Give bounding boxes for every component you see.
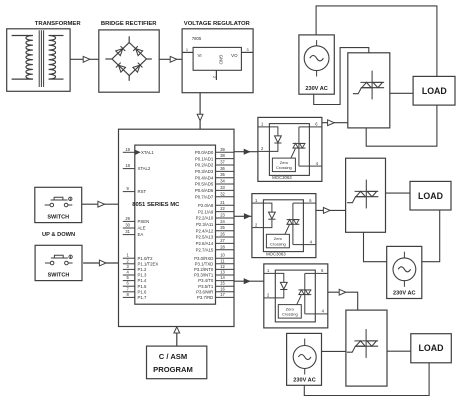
regulator pin 1 stub bbox=[182, 51, 193, 53]
opto-coupler U3 MOC3063 pin 6 bbox=[309, 126, 322, 128]
svg-text:P3.5/T1: P3.5/T1 bbox=[198, 284, 214, 289]
opto-coupler U5 MOC3063 pin 6 bbox=[315, 272, 328, 274]
svg-text:P2.6/A14: P2.6/A14 bbox=[196, 241, 214, 246]
svg-text:P0.4/AD4: P0.4/AD4 bbox=[195, 175, 214, 180]
XTAL1 input arrow bbox=[135, 150, 140, 154]
regulator pin 2 stub bbox=[215, 70, 217, 80]
svg-text:LOAD: LOAD bbox=[422, 86, 447, 96]
MC pin 28 P2.7/A15 bbox=[216, 249, 234, 251]
AC source V3 symbol bbox=[293, 346, 316, 369]
svg-text:29: 29 bbox=[125, 216, 130, 221]
opto-coupler U4 MOC3063 pin 6 bbox=[303, 202, 316, 204]
AC source V2 symbol bbox=[393, 258, 416, 281]
opto-coupler U5 MOC3063 outer box bbox=[264, 264, 328, 328]
MC pin 12 P3.2/INT0 bbox=[216, 268, 234, 270]
MC pin 22 P2.1/A9 bbox=[216, 211, 234, 213]
MC pin 26 P2.5/A13 bbox=[216, 236, 234, 238]
MC pin 39 P0.0/AD0 bbox=[216, 151, 234, 153]
svg-text:24: 24 bbox=[220, 219, 225, 224]
opto-coupler U5 MOC3063 output triac bbox=[304, 273, 306, 314]
bridge terminal stubs bbox=[128, 36, 130, 42]
opto-coupler U3 MOC3063 output triac bbox=[298, 127, 300, 166]
AC source V1 symbol bbox=[304, 46, 329, 71]
svg-text:Crossing: Crossing bbox=[270, 241, 286, 246]
MC pin 32 P0.7/AD7 bbox=[216, 196, 234, 198]
bridge diode D2 (top-right) bbox=[133, 46, 143, 56]
wire MC P2.2 to opto U4 bbox=[234, 215, 252, 217]
triac Q1 symbol bbox=[353, 71, 384, 100]
opto-coupler U4 MOC3063 pin 1 bbox=[252, 202, 264, 204]
svg-text:22: 22 bbox=[220, 206, 225, 211]
svg-text:8051 SERIES MC: 8051 SERIES MC bbox=[132, 202, 180, 208]
opto-coupler U4 MOC3063 gate lead bbox=[285, 225, 289, 234]
opto-coupler U5 MOC3063 LED branch bbox=[275, 273, 284, 282]
MC pin 35 P0.4/AD4 bbox=[216, 177, 234, 179]
MC pin 33 P0.6/AD6 bbox=[216, 189, 234, 191]
svg-text:ALE: ALE bbox=[138, 226, 146, 231]
svg-text:23: 23 bbox=[220, 213, 225, 218]
svg-text:GND: GND bbox=[219, 55, 224, 65]
wire opto U4 to triac Q2 bbox=[316, 209, 346, 211]
wire transformer to bridge bbox=[70, 58, 99, 60]
svg-text:35: 35 bbox=[220, 172, 225, 177]
svg-text:Zero: Zero bbox=[286, 306, 295, 311]
svg-text:XTAL1: XTAL1 bbox=[141, 150, 154, 155]
svg-text:32: 32 bbox=[220, 191, 225, 196]
MC pin 6 P1.5 bbox=[123, 285, 135, 287]
wire triac Q2 bottom to V2 bbox=[364, 232, 387, 261]
transformer primary winding bbox=[12, 35, 33, 37]
wire V1 top rail to LOAD1 bbox=[316, 6, 437, 77]
AC source V2 box bbox=[387, 246, 422, 298]
svg-text:230V AC: 230V AC bbox=[393, 291, 416, 297]
opto-coupler U4 MOC3063 LED diode bbox=[269, 212, 276, 219]
svg-text:C / ASM: C / ASM bbox=[159, 352, 187, 361]
svg-text:P1.0/T2: P1.0/T2 bbox=[138, 256, 154, 261]
MC pin 30 ALE bbox=[123, 227, 135, 229]
MC pin 3 P1.2 bbox=[123, 268, 135, 270]
opto-coupler U5 MOC3063 gate lead bbox=[297, 295, 301, 304]
svg-text:P1.4: P1.4 bbox=[138, 278, 147, 283]
svg-text:UP & DOWN: UP & DOWN bbox=[42, 232, 75, 238]
transformer T1 box bbox=[7, 29, 70, 92]
MC pin 4 P1.3 bbox=[123, 274, 135, 276]
triac Q2 box bbox=[346, 158, 386, 232]
svg-text:17: 17 bbox=[220, 292, 225, 297]
svg-text:P0.0/AD0: P0.0/AD0 bbox=[195, 150, 214, 155]
LOAD1 box bbox=[413, 76, 455, 105]
MC pin 24 P2.3/A11 bbox=[216, 223, 234, 225]
8051 chip body U1 bbox=[135, 145, 216, 304]
switch S2 (down) box bbox=[35, 245, 82, 280]
MC pin 21 P2.0/A8 bbox=[216, 204, 234, 206]
opto-coupler U3 MOC3063 inner body bbox=[269, 124, 309, 176]
wire triac Q3 to LOAD3 bbox=[387, 350, 411, 352]
MC pin 34 P0.5/AD5 bbox=[216, 183, 234, 185]
wire MC P3.4 to opto U5 bbox=[234, 280, 264, 282]
bridge rectifier box bbox=[99, 30, 159, 92]
LOAD2 box bbox=[410, 181, 451, 210]
transformer core bbox=[38, 30, 40, 87]
opto-coupler U4 MOC3063 output triac bbox=[292, 203, 294, 245]
opto-coupler U4 MOC3063 outer box bbox=[252, 194, 316, 258]
svg-text:SWITCH: SWITCH bbox=[47, 215, 69, 221]
svg-text:XTAL2: XTAL2 bbox=[138, 166, 151, 171]
MC pin 36 P0.3/AD3 bbox=[216, 170, 234, 172]
opto-coupler U5 MOC3063 pin 4 bbox=[315, 313, 328, 315]
opto-coupler U4 MOC3063 inner body bbox=[263, 200, 303, 252]
svg-text:BRIDGE RECTIFIER: BRIDGE RECTIFIER bbox=[101, 21, 157, 27]
svg-text:18: 18 bbox=[125, 163, 130, 168]
MC pin 14 P3.4/T0 bbox=[216, 280, 234, 282]
opto-coupler U3 MOC3063 outer box bbox=[258, 117, 322, 181]
svg-text:Zero: Zero bbox=[280, 160, 289, 165]
svg-text:VI: VI bbox=[198, 53, 202, 58]
MC pin 27 P2.6/A14 bbox=[216, 242, 234, 244]
svg-text:MOC3063: MOC3063 bbox=[272, 175, 292, 180]
opto-coupler U3 MOC3063 LED diode bbox=[275, 136, 282, 143]
svg-text:P2.2/A10: P2.2/A10 bbox=[196, 216, 214, 221]
wire switch S2 to MC bbox=[83, 262, 118, 264]
MC pin 11 P3.1/TXD bbox=[216, 263, 234, 265]
opto-coupler U3 MOC3063 zero crossing box bbox=[272, 158, 295, 172]
svg-text:33: 33 bbox=[220, 185, 225, 190]
wire regulator to MC bbox=[199, 93, 201, 130]
opto-coupler U5 MOC3063 LED diode bbox=[280, 282, 287, 289]
svg-text:P1.3: P1.3 bbox=[138, 273, 147, 278]
opto-coupler U4 MOC3063 zero crossing box bbox=[266, 234, 289, 248]
svg-text:P2.3/A11: P2.3/A11 bbox=[196, 222, 214, 227]
svg-text:P3.1/TXD: P3.1/TXD bbox=[195, 261, 214, 266]
svg-text:28: 28 bbox=[220, 244, 225, 249]
svg-text:P2.0/A8: P2.0/A8 bbox=[198, 203, 214, 208]
MC pin 13 P3.3/INT1 bbox=[216, 274, 234, 276]
svg-text:VOLTAGE REGULATOR: VOLTAGE REGULATOR bbox=[184, 21, 251, 27]
opto-coupler U3 MOC3063 gate lead bbox=[291, 149, 295, 158]
svg-text:21: 21 bbox=[220, 200, 225, 205]
svg-text:Crossing: Crossing bbox=[282, 312, 298, 317]
svg-text:P1.5: P1.5 bbox=[138, 284, 147, 289]
opto-coupler U5 MOC3063 pin 2 bbox=[264, 297, 276, 299]
svg-text:26: 26 bbox=[220, 232, 225, 237]
triac Q3 symbol bbox=[347, 329, 378, 358]
svg-text:30: 30 bbox=[125, 223, 130, 228]
svg-text:SWITCH: SWITCH bbox=[48, 273, 70, 279]
wire MC P0.0 to opto U3 bbox=[234, 151, 258, 153]
svg-text:Crossing: Crossing bbox=[276, 165, 292, 170]
MC pin 5 P1.4 bbox=[123, 280, 135, 282]
svg-text:12: 12 bbox=[220, 264, 225, 269]
svg-text:19: 19 bbox=[125, 147, 130, 152]
svg-text:Zero: Zero bbox=[274, 236, 283, 241]
MC pin 10 P3.0/RXD bbox=[216, 257, 234, 259]
svg-text:TRANSFORMER: TRANSFORMER bbox=[35, 21, 82, 27]
wire program to MC bbox=[176, 333, 178, 346]
svg-text:PROGRAM: PROGRAM bbox=[153, 365, 193, 374]
svg-text:P0.2/AD2: P0.2/AD2 bbox=[195, 163, 214, 168]
MC pin 15 P3.5/T1 bbox=[216, 285, 234, 287]
svg-text:P3.7/RD: P3.7/RD bbox=[197, 295, 213, 300]
svg-text:P3.3/INT1: P3.3/INT1 bbox=[194, 273, 214, 278]
svg-text:230V AC: 230V AC bbox=[305, 86, 328, 92]
svg-text:P3.0/RXD: P3.0/RXD bbox=[194, 256, 213, 261]
opto-coupler U4 MOC3063 pin 2 bbox=[252, 227, 264, 229]
wire V3 to triac Q3 bbox=[322, 350, 346, 352]
wire bridge to regulator bbox=[159, 58, 182, 60]
svg-text:230V AC: 230V AC bbox=[293, 377, 316, 383]
svg-text:P0.5/AD5: P0.5/AD5 bbox=[195, 182, 214, 187]
svg-text:VO: VO bbox=[231, 53, 238, 58]
regulator 7805 inner body bbox=[193, 47, 241, 70]
svg-text:P1.7: P1.7 bbox=[138, 295, 147, 300]
MC pin 8 P1.7 bbox=[123, 296, 135, 298]
svg-text:37: 37 bbox=[220, 160, 225, 165]
opto-coupler U4 MOC3063 pin 4 bbox=[303, 244, 316, 246]
wire opto U3 to triac Q1 bbox=[322, 122, 348, 124]
MC module outer box bbox=[119, 129, 235, 326]
svg-text:16: 16 bbox=[220, 286, 225, 291]
MC pin 1 P1.0/T2 bbox=[123, 257, 135, 259]
svg-text:P0.6/AD6: P0.6/AD6 bbox=[195, 188, 214, 193]
svg-text:11: 11 bbox=[220, 258, 225, 263]
svg-text:25: 25 bbox=[220, 225, 225, 230]
svg-text:39: 39 bbox=[220, 147, 225, 152]
opto-coupler U3 MOC3063 LED branch bbox=[269, 127, 278, 136]
wire triac Q1 bottom to LOAD1 bottom bbox=[366, 105, 437, 146]
bridge diamond bbox=[112, 43, 146, 76]
MC pin 9 RST bbox=[123, 191, 135, 193]
svg-text:38: 38 bbox=[220, 153, 225, 158]
switch S1 (up) pushbutton symbol bbox=[50, 203, 54, 207]
MC pin 38 P0.1/AD1 bbox=[216, 158, 234, 160]
MC pin 17 P3.7/RD bbox=[216, 296, 234, 298]
wire V3 bottom to LOAD3 bottom bbox=[304, 363, 429, 396]
wire LOAD2 bottom to V2 bbox=[422, 210, 440, 262]
svg-text:10: 10 bbox=[220, 253, 225, 258]
svg-text:P1.2: P1.2 bbox=[138, 267, 147, 272]
opto-coupler U3 MOC3063 pin 4 bbox=[309, 165, 322, 167]
svg-text:31: 31 bbox=[125, 229, 130, 234]
voltage regulator U2 outer box bbox=[182, 29, 253, 93]
bridge diode D3 (bottom-left) bbox=[116, 63, 126, 73]
MC pin 18 XTAL2 bbox=[123, 168, 135, 170]
svg-text:P2.7/A15: P2.7/A15 bbox=[196, 247, 214, 252]
wire V1 bottom around to triac Q1 top bbox=[314, 48, 369, 105]
svg-text:P0.3/AD3: P0.3/AD3 bbox=[195, 169, 214, 174]
bridge diode D1 (top-left) bbox=[116, 46, 126, 56]
opto-coupler U5 MOC3063 zero crossing box bbox=[278, 305, 301, 319]
triac Q2 symbol bbox=[347, 180, 378, 209]
LOAD3 box bbox=[411, 334, 452, 363]
switch S1 (up) box bbox=[35, 187, 82, 222]
svg-text:LOAD: LOAD bbox=[418, 191, 443, 201]
svg-text:P2.5/A13: P2.5/A13 bbox=[196, 235, 214, 240]
bridge diode D4 (bottom-right) bbox=[133, 63, 143, 73]
svg-text:P3.4/T0: P3.4/T0 bbox=[198, 278, 214, 283]
svg-text:P2.4/A12: P2.4/A12 bbox=[196, 228, 214, 233]
opto-coupler U5 MOC3063 inner body bbox=[275, 270, 315, 322]
svg-text:13: 13 bbox=[220, 270, 225, 275]
svg-text:15: 15 bbox=[220, 281, 225, 286]
svg-text:RST: RST bbox=[138, 189, 147, 194]
AC source V3 box bbox=[287, 333, 322, 385]
MC pin 37 P0.2/AD2 bbox=[216, 164, 234, 166]
triac Q1 box bbox=[348, 53, 390, 128]
opto-coupler U3 MOC3063 pin 2 bbox=[258, 150, 270, 152]
svg-text:34: 34 bbox=[220, 179, 225, 184]
regulator pin 3 stub bbox=[241, 51, 253, 53]
triac Q3 box bbox=[346, 310, 387, 386]
MC pin 7 P1.6 bbox=[123, 291, 135, 293]
C/ASM program box bbox=[147, 346, 207, 379]
svg-text:P3.6/WR: P3.6/WR bbox=[196, 289, 213, 294]
AC source V1 box bbox=[299, 35, 334, 94]
svg-text:27: 27 bbox=[220, 238, 225, 243]
MC pin 2 P1.1/T2EX bbox=[123, 263, 135, 265]
svg-text:7805: 7805 bbox=[192, 36, 202, 41]
MC pin 31 EA bbox=[123, 234, 135, 236]
opto-coupler U5 MOC3063 pin 1 bbox=[264, 272, 276, 274]
MC pin 19 XTAL1 bbox=[123, 151, 135, 153]
svg-text:P3.2/INT0: P3.2/INT0 bbox=[194, 267, 214, 272]
svg-text:P2.1/A9: P2.1/A9 bbox=[198, 209, 214, 214]
switch S2 (down) pushbutton symbol bbox=[50, 261, 54, 265]
opto-coupler U3 MOC3063 pin 1 bbox=[258, 126, 270, 128]
svg-text:LOAD: LOAD bbox=[419, 343, 444, 353]
svg-text:P1.6: P1.6 bbox=[138, 289, 147, 294]
svg-text:36: 36 bbox=[220, 166, 225, 171]
svg-text:MOC3063: MOC3063 bbox=[266, 251, 286, 256]
svg-text:P0.7/AD7: P0.7/AD7 bbox=[195, 194, 214, 199]
transformer secondary winding bbox=[49, 35, 64, 37]
wire switch S1 to MC bbox=[82, 203, 119, 205]
wire triac Q2 to LOAD2 bbox=[386, 192, 411, 194]
MC pin 16 P3.6/WR bbox=[216, 291, 234, 293]
wire triac Q1 to LOAD1 bbox=[390, 92, 413, 94]
svg-text:PSEN: PSEN bbox=[138, 219, 150, 224]
svg-text:EA: EA bbox=[138, 232, 144, 237]
svg-text:P0.1/AD1: P0.1/AD1 bbox=[195, 156, 214, 161]
wire opto U5 to triac Q3 bbox=[328, 292, 358, 310]
svg-text:P1.1/T2EX: P1.1/T2EX bbox=[138, 261, 159, 266]
svg-text:14: 14 bbox=[220, 275, 225, 280]
MC pin 23 P2.2/A10 bbox=[216, 217, 234, 219]
MC pin 25 P2.4/A12 bbox=[216, 230, 234, 232]
MC pin 29 PSEN bbox=[123, 220, 135, 222]
opto-coupler U4 MOC3063 LED branch bbox=[263, 203, 272, 212]
